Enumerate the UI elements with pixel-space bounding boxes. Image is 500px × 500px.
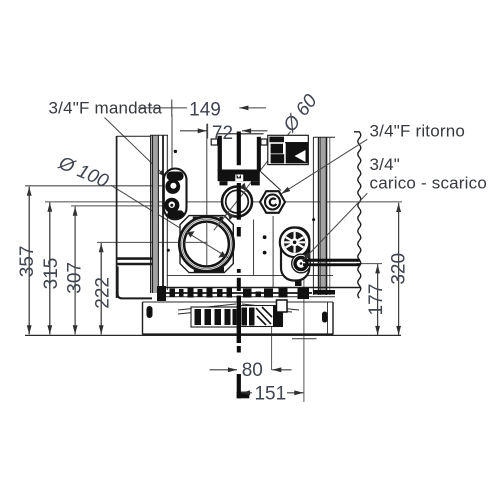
- dimension 357: [28, 187, 30, 335]
- arrowheads of diameter 60: [228, 183, 246, 221]
- panel screw dots: [167, 150, 315, 255]
- left rear panel edge lines: [150, 135, 168, 293]
- svg-text:72: 72: [212, 123, 233, 144]
- drain fitting: [292, 254, 311, 273]
- safety valve (star knob): [280, 228, 310, 258]
- svg-text:320: 320: [389, 253, 410, 285]
- svg-text:80: 80: [242, 360, 263, 381]
- svg-text:149: 149: [189, 99, 221, 120]
- extension line 315/320 (y=201.9): [45, 201, 402, 203]
- drain pipe to right: [303, 259, 360, 262]
- flue plate bottom clamp: [194, 267, 224, 272]
- svg-text:3/4"F mandata: 3/4"F mandata: [49, 99, 163, 118]
- bottom frame band: [157, 286, 360, 301]
- arrowheads of diameter 100: [187, 231, 226, 258]
- dimension 222: [100, 243, 102, 334]
- leader diameter 60: [214, 132, 291, 231]
- svg-text:307: 307: [64, 262, 85, 294]
- extension line 80 vertical x=271.6: [271, 306, 273, 370]
- lower left box: [118, 267, 152, 299]
- dimension 151: [241, 392, 303, 394]
- svg-text:3/4": 3/4": [370, 155, 400, 174]
- svg-text:315: 315: [41, 258, 62, 290]
- extension line 222 (y=242.4): [97, 241, 208, 243]
- svg-text:151: 151: [254, 383, 286, 404]
- dimension 80: [210, 369, 292, 371]
- wire group: extension lines: [25, 115, 402, 403]
- safety valve assembly shell: [281, 228, 309, 281]
- smoke fitting circle (diameter 60): [222, 187, 252, 217]
- leader carico-scarico: [303, 193, 368, 260]
- flue plate top clamp: [193, 217, 223, 223]
- ritorno fitting (hex nut): [260, 191, 285, 213]
- left box bottom double edge: [117, 257, 152, 260]
- right side panel break (zigzag) line: [354, 132, 361, 298]
- dimension 307: [74, 207, 76, 335]
- panel bottom inner seam: [167, 274, 333, 276]
- ground line: [25, 334, 401, 336]
- dimension 177: [377, 264, 379, 335]
- svg-text:Ø 100: Ø 100: [55, 152, 112, 192]
- right rear panel edge lines: [313, 137, 335, 295]
- valve connecting bar: [305, 248, 310, 263]
- flue crosshair: [206, 222, 208, 266]
- step line below base right: [292, 338, 317, 340]
- svg-text:357: 357: [17, 246, 38, 278]
- leader diameter 60 over circle: [214, 189, 247, 230]
- extension line 307 (y=205.9): [71, 205, 173, 207]
- foot below valve shell: [295, 280, 302, 286]
- panel seam vertical B: [272, 216, 274, 287]
- extension line 177 (y=263.6): [357, 263, 382, 265]
- extension line 151 vertical x=303.9: [303, 274, 305, 402]
- extension line 72 vertical x=207.5: [206, 124, 208, 266]
- flue plate: [180, 216, 233, 273]
- auger motor grill left: [191, 307, 238, 327]
- dimension 320: [398, 203, 400, 335]
- svg-text:3/4"F ritorno: 3/4"F ritorno: [370, 122, 466, 141]
- chimney support bracket: [211, 134, 281, 191]
- leader lines: [105, 118, 291, 258]
- svg-text:177: 177: [366, 284, 387, 316]
- panel seam vertical A: [253, 220, 255, 276]
- extension line 149 vertical x=172: [171, 115, 173, 171]
- junction white box: [277, 300, 288, 312]
- center line (dash-dot): [237, 132, 250, 399]
- dimension 315: [49, 203, 51, 335]
- dimension 72: [180, 124, 268, 139]
- leader diameter 100: [111, 185, 228, 257]
- svg-text:Ø 60: Ø 60: [279, 90, 322, 137]
- extension line 357 (y=185.8): [25, 185, 173, 187]
- base trapezoid braces: [178, 304, 299, 314]
- svg-text:carico - scarico: carico - scarico: [370, 174, 488, 193]
- terminal box: [268, 135, 309, 164]
- base platform: [143, 302, 334, 335]
- auger motor grill right: [241, 306, 283, 327]
- dimension 149: [138, 100, 266, 117]
- leader ritorno: [281, 139, 367, 194]
- flue pipe circles (diameter 100): [179, 217, 233, 271]
- base oval holes: [147, 306, 153, 318]
- machine: left side box panel: [117, 136, 152, 298]
- svg-text:222: 222: [93, 277, 114, 309]
- leader mandata: [105, 118, 168, 179]
- leader diameter 100 over circle: [186, 232, 228, 258]
- mandata fitting (obround): [164, 169, 187, 220]
